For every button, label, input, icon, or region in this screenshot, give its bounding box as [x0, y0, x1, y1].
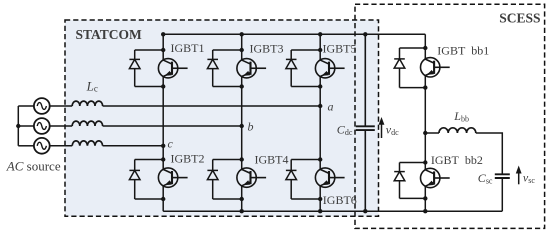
- leg 1 wire: [162, 34, 164, 211]
- wire phase a line: [103, 105, 321, 107]
- svg-text:IGBT6: IGBT6: [323, 193, 357, 207]
- junction Lbb tap: [423, 131, 427, 135]
- svg-text:c: c: [168, 137, 174, 151]
- svg-text:IGBT bb1: IGBT bb1: [437, 44, 489, 58]
- svg-text:vsc: vsc: [523, 171, 535, 186]
- svg-text:SCESS: SCESS: [499, 10, 540, 25]
- junction DC link top: [363, 32, 367, 36]
- diode D6: [286, 170, 297, 179]
- IGBT3 cell bottom bar: [213, 86, 242, 88]
- bb2 leg through transistor: [424, 163, 426, 199]
- IGBT bb1 cell top bar: [400, 47, 426, 49]
- junction leg1 top bus: [161, 32, 165, 36]
- junction IGBT1 bottom: [161, 84, 165, 88]
- junction bb2 top: [423, 160, 427, 164]
- junction DC link bottom: [363, 209, 367, 213]
- wire phase c line: [103, 145, 164, 147]
- junction IGBT4 top: [240, 157, 244, 161]
- svg-text:Lbb: Lbb: [453, 109, 469, 124]
- svg-text:STATCOM: STATCOM: [76, 27, 143, 42]
- DC link wire: [364, 34, 366, 211]
- wire to Lbb: [425, 132, 439, 134]
- svg-text:AC source: AC source: [6, 158, 61, 173]
- svg-text:a: a: [328, 100, 334, 114]
- wire source c to inductor: [50, 145, 72, 147]
- IGBT4 diode branch: [212, 160, 214, 200]
- IGBT bb1 cell bottom bar: [400, 87, 426, 89]
- transistor IGBT5: [315, 59, 344, 78]
- svg-text:Csc: Csc: [478, 171, 493, 186]
- transistor IGBT bb1: [421, 58, 450, 77]
- wire bb2 to bottom bus: [424, 198, 426, 211]
- STATCOM enclosure: [65, 20, 379, 216]
- junction leg2 top bus: [240, 32, 244, 36]
- IGBT6 cell top bar: [291, 159, 320, 161]
- junction IGBT5 top: [318, 48, 322, 52]
- wire AC bus to source a: [18, 105, 34, 107]
- IGBT6 cell bottom bar: [291, 198, 320, 200]
- transistor IGBT6: [315, 168, 344, 187]
- diode D1: [129, 59, 140, 68]
- junction leg3 top bus: [318, 32, 322, 36]
- junction on AC bus: [16, 124, 20, 128]
- inductor Lbb: [439, 128, 476, 133]
- wire phase b line: [103, 125, 242, 127]
- IGBT5 diode branch: [290, 50, 292, 87]
- IGBT1 cell bottom bar: [135, 86, 164, 88]
- inductor Lc phase c: [72, 141, 102, 146]
- IGBT bb2 cell bottom bar: [400, 197, 426, 199]
- junction leg3 bottom bus: [318, 209, 322, 213]
- transistor IGBT1: [158, 59, 187, 78]
- AC source phase c: [34, 138, 50, 154]
- AC source common bus wire: [17, 106, 19, 146]
- IGBT5 cell bottom bar: [291, 86, 320, 88]
- inductor Lc phase a: [72, 101, 102, 106]
- wire AC bus to source c: [18, 145, 34, 147]
- transistor IGBT4: [237, 168, 266, 187]
- junction bb2 bus: [423, 209, 427, 213]
- diode D4: [207, 170, 218, 179]
- AC source phase a: [34, 98, 50, 114]
- capacitor Cdc: [356, 126, 375, 130]
- wire Lbb to Csc: [476, 133, 503, 174]
- junction IGBT3 bottom: [240, 84, 244, 88]
- capacitor Csc: [495, 174, 510, 178]
- junction IGBT1 top: [161, 48, 165, 52]
- junction bb1 top: [423, 46, 427, 50]
- IGBT2 cell bottom bar: [135, 198, 164, 200]
- diode D5: [286, 59, 297, 68]
- junction IGBT5 bottom: [318, 84, 322, 88]
- inductor Lc phase b: [72, 121, 102, 126]
- arrow vdc: [381, 124, 383, 139]
- junction bb2 bottom: [423, 196, 427, 200]
- arrow vsc: [518, 172, 520, 184]
- IGBT1 diode branch: [134, 50, 136, 87]
- svg-text:vdc: vdc: [386, 123, 399, 138]
- junction IGBT6 bottom: [318, 197, 322, 201]
- svg-text:IGBT3: IGBT3: [250, 41, 284, 55]
- transistor IGBT3: [237, 59, 266, 78]
- IGBT3 cell top bar: [213, 49, 242, 51]
- junction IGBT2 bottom: [161, 197, 165, 201]
- junction IGBT3 top: [240, 48, 244, 52]
- IGBT6 diode branch: [290, 160, 292, 200]
- IGBT4 cell bottom bar: [213, 198, 242, 200]
- leg 3 wire: [319, 34, 321, 211]
- diode D3: [207, 59, 218, 68]
- SCESS enclosure: [355, 4, 545, 228]
- svg-text:IGBT1: IGBT1: [171, 41, 205, 55]
- IGBT2 diode branch: [134, 160, 136, 200]
- IGBT bb2 cell top bar: [400, 162, 426, 164]
- wire bb leg from top bus: [424, 34, 426, 48]
- bottom DC bus: [163, 210, 502, 212]
- bb1 leg through transistor: [424, 48, 426, 88]
- svg-text:IGBT bb2: IGBT bb2: [431, 153, 483, 167]
- svg-text:IGBT4: IGBT4: [255, 153, 289, 167]
- svg-text:b: b: [248, 120, 254, 134]
- diode Dbb1: [394, 59, 405, 68]
- junction IGBT2 top: [161, 157, 165, 161]
- IGBT3 diode branch: [212, 50, 214, 87]
- wire source a to inductor: [50, 105, 72, 107]
- junction IGBT4 bottom: [240, 197, 244, 201]
- junction IGBT6 top: [318, 157, 322, 161]
- svg-text:IGBT2: IGBT2: [171, 152, 205, 166]
- IGBT2 cell top bar: [135, 159, 164, 161]
- wire AC bus to source b: [18, 125, 34, 127]
- leg 2 wire: [241, 34, 243, 211]
- IGBT1 cell top bar: [135, 49, 164, 51]
- diode D2: [129, 170, 140, 179]
- bb1 diode branch: [399, 48, 401, 88]
- node c: [161, 144, 165, 148]
- top DC bus: [163, 33, 425, 35]
- diode Dbb2: [394, 172, 405, 181]
- wire bb mid: [424, 88, 426, 163]
- junction leg2 bottom bus: [240, 209, 244, 213]
- AC source phase b: [34, 118, 50, 134]
- IGBT5 cell top bar: [291, 49, 320, 51]
- junction bb1 bottom: [423, 85, 427, 89]
- transistor IGBT bb2: [421, 168, 450, 187]
- wire source b to inductor: [50, 125, 72, 127]
- IGBT4 cell top bar: [213, 159, 242, 161]
- transistor IGBT2: [158, 168, 187, 187]
- node b: [240, 124, 244, 128]
- wire Csc to bottom bus: [501, 178, 503, 211]
- svg-text:IGBT5: IGBT5: [323, 42, 357, 56]
- node a: [318, 104, 322, 108]
- bb2 diode branch: [399, 163, 401, 199]
